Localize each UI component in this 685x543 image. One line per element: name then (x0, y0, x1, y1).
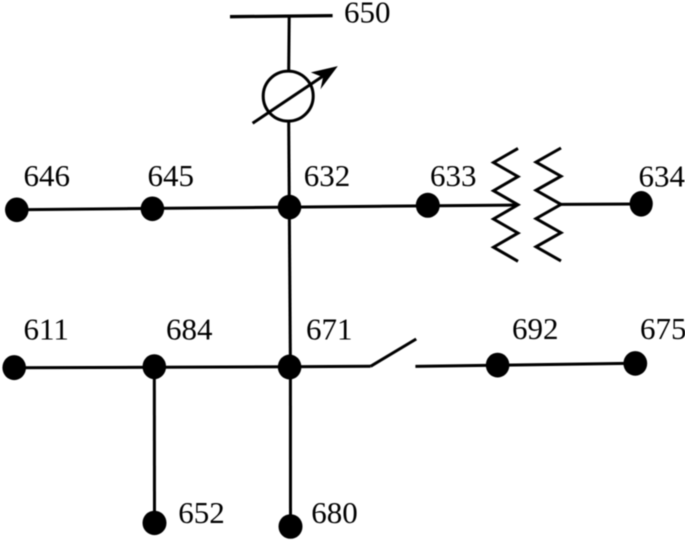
node 646 (5, 198, 29, 223)
svg-text:680: 680 (311, 495, 358, 530)
voltage regulator arrow shaft (253, 70, 332, 123)
wire 671 to switch (290, 365, 371, 369)
wire 611-684-671 (14, 365, 289, 369)
svg-text:684: 684 (166, 312, 213, 347)
svg-text:675: 675 (640, 311, 685, 346)
node 645 (141, 197, 165, 222)
svg-text:611: 611 (24, 312, 69, 347)
node 675 (623, 351, 647, 376)
switch blade 671-692 (371, 339, 417, 366)
svg-text:671: 671 (306, 312, 353, 347)
wire transformer to 634 (561, 203, 641, 206)
wire regulator to 632 to 671 (289, 122, 291, 367)
transformer XFM-1 winding 2 (536, 148, 561, 261)
node 634 (630, 191, 653, 217)
svg-text:646: 646 (24, 158, 71, 193)
node 692 (486, 353, 510, 378)
svg-text:634: 634 (639, 159, 685, 194)
voltage regulator arrowhead (311, 66, 338, 89)
node 652 (143, 511, 167, 535)
node 633 (416, 193, 440, 218)
svg-text:633: 633 (430, 158, 477, 193)
wire switch to 692 to 675 (415, 363, 635, 366)
source bus 650 bar (230, 16, 333, 17)
wire 684 to 652 (153, 367, 156, 523)
node 671 (278, 355, 302, 380)
wire 646-645-632-633-transformer (17, 205, 518, 210)
svg-text:692: 692 (512, 311, 559, 346)
svg-text:645: 645 (148, 158, 195, 193)
wire 650 to regulator (287, 16, 291, 71)
svg-text:652: 652 (178, 495, 225, 530)
voltage regulator circle (263, 71, 313, 121)
node 680 (279, 514, 303, 539)
transformer XFM-1 winding 1 (494, 148, 519, 261)
svg-text:650: 650 (344, 0, 391, 30)
node 611 (2, 355, 26, 380)
svg-text:632: 632 (304, 158, 351, 193)
node 684 (143, 354, 167, 379)
node 632 (278, 195, 302, 220)
wire 671 to 680 (289, 367, 292, 526)
